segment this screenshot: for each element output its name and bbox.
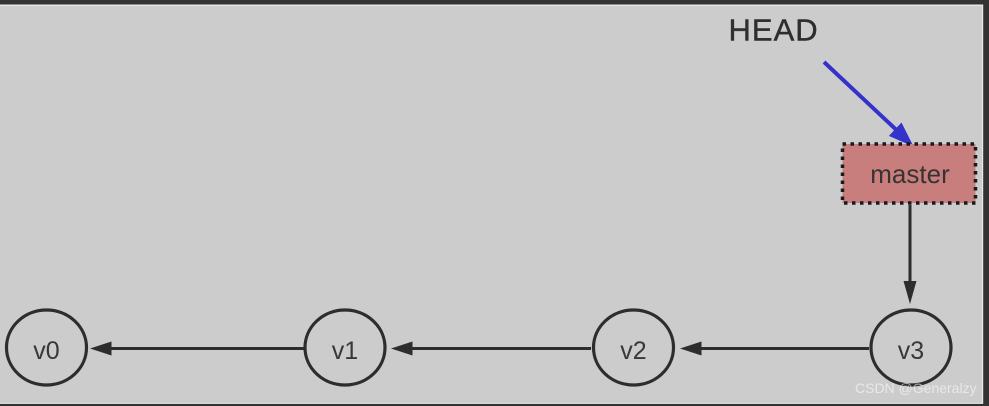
node v2: [594, 310, 674, 385]
node v1: [305, 310, 385, 385]
arrow v3 to v2: [680, 342, 869, 356]
svg-text:master: master: [870, 159, 950, 189]
branch box master: [843, 144, 976, 203]
svg-text:v3: v3: [898, 337, 924, 365]
svg-text:HEAD: HEAD: [729, 13, 819, 48]
node v0: [7, 310, 87, 385]
svg-text:v2: v2: [620, 337, 646, 365]
blue arrow HEAD to master: [824, 62, 914, 147]
svg-text:CSDN @Generalzy: CSDN @Generalzy: [855, 380, 977, 396]
arrow v2 to v1: [391, 342, 591, 356]
arrow v1 to v0: [90, 342, 304, 356]
svg-text:v0: v0: [33, 337, 59, 365]
node v3: [871, 310, 951, 385]
arrow master to v3: [904, 205, 917, 304]
svg-text:v1: v1: [332, 337, 358, 365]
